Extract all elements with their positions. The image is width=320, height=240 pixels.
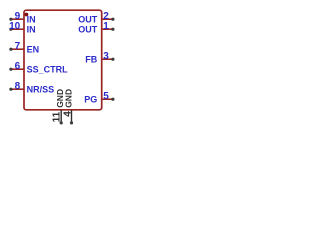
pin 2 end dot [111,18,114,21]
pin 1 OUT wire [102,28,113,30]
svg-text:IN: IN [27,14,36,24]
svg-text:10: 10 [9,21,21,32]
pin 6 end dot [9,68,12,71]
svg-text:3: 3 [103,51,109,62]
pin 7 end dot [9,48,12,51]
pin 9 end dot [9,18,12,21]
svg-text:6: 6 [15,61,21,72]
pin 4 GND wire (bottom) [71,110,73,123]
pin 9 IN wire [11,18,24,20]
pin 4 end dot [70,121,73,124]
svg-text:FB: FB [85,54,97,64]
svg-text:4: 4 [62,111,73,117]
svg-text:1: 1 [103,21,109,32]
svg-text:OUT: OUT [78,24,98,34]
pin 8 end dot [9,88,12,91]
pin 5 PG wire [102,98,113,100]
svg-text:SS_CTRL: SS_CTRL [27,64,69,74]
svg-text:11: 11 [52,111,63,122]
op-amp/regulator body U1 [24,10,102,110]
svg-text:GND: GND [64,89,74,108]
pin 8 NR/SS wire [11,88,24,90]
pin 1 end dot [111,28,114,31]
svg-text:EN: EN [27,44,40,54]
pin 6 SS_CTRL wire [11,68,24,70]
pin 10 end dot [9,28,12,31]
svg-text:OUT: OUT [78,14,98,24]
svg-text:NR/SS: NR/SS [27,84,55,94]
pin 11 end dot [60,121,63,124]
pin 3 end dot [111,58,114,61]
svg-text:5: 5 [103,91,109,102]
svg-text:PG: PG [84,94,97,104]
svg-text:IN: IN [27,24,36,34]
svg-text:7: 7 [15,41,21,52]
pin 2 OUT wire [102,18,113,20]
origin marker dot [25,13,29,17]
pin 3 FB wire [102,58,113,60]
pin 11 GND wire (bottom) [60,110,62,123]
pin 7 EN wire [11,48,24,50]
svg-text:8: 8 [15,81,21,92]
pin 10 IN wire [11,28,24,30]
pin 5 end dot [111,98,114,101]
